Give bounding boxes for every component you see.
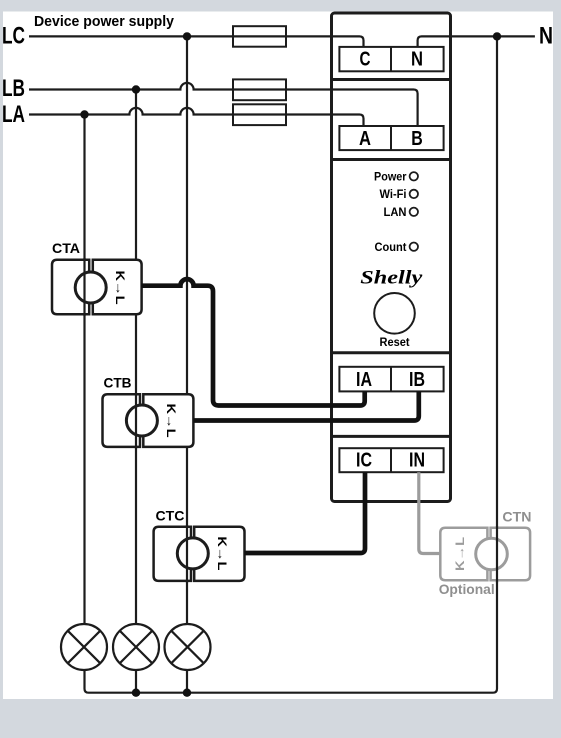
svg-text:Optional: Optional [439,581,495,597]
svg-text:CTN: CTN [502,508,531,524]
svg-text:A: A [359,128,371,150]
svg-text:K→L: K→L [453,537,467,571]
svg-text:LC: LC [2,23,25,50]
svg-text:LAN: LAN [384,205,407,219]
svg-text:K→L: K→L [164,404,178,438]
svg-text:Reset: Reset [380,335,410,349]
svg-text:N: N [411,49,423,71]
svg-text:B: B [411,128,423,150]
svg-text:LA: LA [2,101,25,128]
svg-text:C: C [360,49,371,71]
svg-text:Wi-Fi: Wi-Fi [380,187,407,201]
svg-text:IA: IA [356,369,372,391]
svg-text:IC: IC [356,450,372,472]
svg-text:Device power supply: Device power supply [34,13,175,30]
svg-text:CTB: CTB [104,375,132,391]
svg-text:K→L: K→L [113,271,127,305]
svg-text:IB: IB [409,369,425,391]
svg-text:N: N [539,22,553,49]
svg-text:CTC: CTC [156,508,185,524]
svg-text:Power: Power [374,169,407,183]
svg-text:CTA: CTA [52,240,80,256]
svg-text:LB: LB [2,75,25,102]
svg-text:K→L: K→L [215,536,229,570]
svg-text:IN: IN [409,450,425,472]
svg-text:Count: Count [375,240,407,254]
svg-text:Shelly: Shelly [360,268,423,289]
